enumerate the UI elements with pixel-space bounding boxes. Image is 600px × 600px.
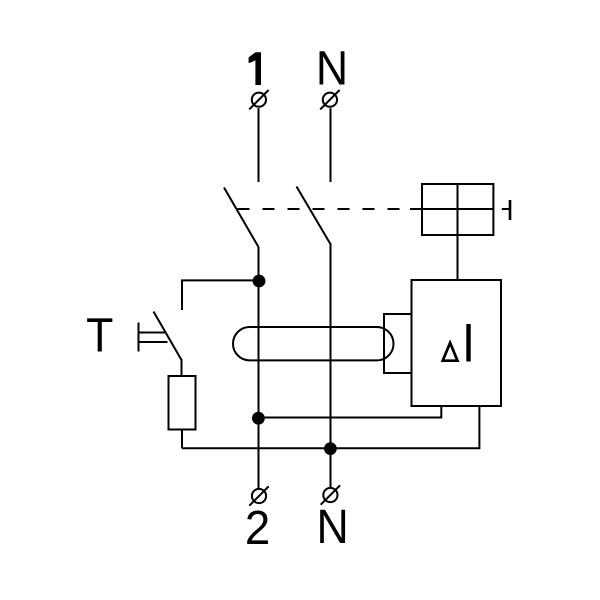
wire relay bottom left to pole1 — [259, 406, 441, 418]
switch blade pole N — [297, 187, 332, 246]
test button link lower — [139, 341, 168, 343]
manual actuator stem — [502, 208, 510, 210]
test button link upper — [139, 332, 167, 334]
terminal circle 2 (bottom) — [249, 486, 268, 505]
wire terminal N down to contact — [330, 108, 332, 182]
wire pole 1 main (through toroid) — [258, 247, 260, 488]
relay label I — [466, 324, 470, 362]
wire resistor down — [181, 430, 183, 449]
switch blade pole 1 — [224, 188, 259, 248]
wire test blade to resistor — [181, 359, 183, 376]
node junction pole1 lower — [252, 412, 265, 425]
relay label delta — [443, 343, 458, 361]
current transformer toroid — [233, 327, 394, 360]
coupling actuator box — [422, 184, 493, 235]
wire relay bottom right to N — [182, 406, 479, 448]
wire junction to test branch (left) — [182, 280, 259, 310]
terminal label 1 — [249, 52, 261, 85]
mechanical coupling dashed line — [238, 208, 412, 210]
node junction pole1 / test branch — [253, 275, 266, 288]
coupling box horizontal midline — [410, 208, 493, 210]
svg-text:N: N — [316, 500, 348, 554]
test switch blade — [154, 312, 182, 361]
secondary winding coupling rect — [384, 314, 412, 373]
coupling box vertical divider and link down to relay — [457, 184, 459, 280]
svg-text:N: N — [316, 41, 348, 95]
wire terminal 1 down to contact — [258, 108, 260, 182]
terminal circle N (top) — [320, 90, 339, 109]
node junction N / test resistor — [324, 442, 337, 455]
trip relay box — [412, 280, 502, 406]
manual actuator bar — [509, 200, 512, 220]
resistor R (test) — [169, 376, 196, 430]
terminal circle N (bottom) — [321, 485, 340, 504]
terminal circle 1 (top) — [249, 90, 268, 109]
svg-text:T: T — [86, 308, 113, 362]
svg-text:2: 2 — [245, 501, 270, 554]
test button cap bar — [138, 323, 140, 352]
wire pole N main (through toroid) — [330, 245, 332, 487]
